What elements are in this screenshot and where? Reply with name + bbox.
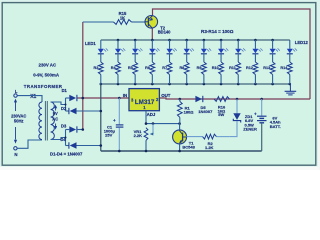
- wire D1-D2 join: [65, 98, 67, 111]
- resistor R15: [114, 20, 132, 25]
- resistor R1: [177, 99, 182, 124]
- svg-text:230V AC: 230V AC: [39, 62, 57, 67]
- LED2: [115, 40, 126, 62]
- wire ADJ node: [146, 123, 180, 125]
- LED8: [218, 40, 229, 62]
- svg-text:180Ω: 180Ω: [184, 109, 195, 114]
- pin 2: [156, 97, 159, 102]
- label ADJ: [147, 112, 156, 117]
- junction wiper: [152, 122, 155, 125]
- battery BATT: [257, 116, 267, 123]
- junction D2 return: [100, 110, 103, 113]
- svg-text:0-9V, 500mA: 0-9V, 500mA: [33, 73, 60, 78]
- potentiometer VR1: [144, 128, 148, 141]
- svg-text:BATT.: BATT.: [270, 124, 281, 129]
- svg-text:ZENER: ZENER: [243, 126, 257, 131]
- svg-text:50Hz: 50Hz: [14, 119, 24, 124]
- wire D3 out: [77, 129, 83, 131]
- LED11: [270, 40, 281, 62]
- LED9: [235, 40, 246, 62]
- terminal N: [14, 147, 18, 157]
- svg-text:LED1: LED1: [85, 41, 96, 46]
- terminal L: [14, 89, 18, 97]
- capacitor C1: [116, 125, 124, 127]
- label D2: [61, 106, 67, 111]
- svg-text:LED12: LED12: [295, 40, 309, 45]
- wire battery+ rail (top and right): [153, 9, 311, 99]
- svg-text:R11: R11: [229, 66, 236, 70]
- inner panel: [2, 3, 316, 166]
- label 9V AC: [52, 111, 58, 121]
- svg-text:D2: D2: [61, 106, 67, 111]
- resistor R2: [203, 134, 217, 139]
- svg-text:R5: R5: [128, 66, 133, 70]
- wire D4 out: [77, 145, 101, 147]
- wire L to primary: [17, 96, 42, 102]
- label R3: [94, 66, 99, 70]
- diode D2: [69, 108, 77, 114]
- wire battery top: [261, 99, 263, 116]
- diode D4: [69, 142, 77, 148]
- label R5: [128, 66, 133, 70]
- svg-text:5W: 5W: [218, 112, 224, 117]
- wire N to primary: [17, 140, 42, 148]
- label 0-9V 500mA: [33, 73, 60, 78]
- label R7: [162, 66, 167, 70]
- wire T1 emitter: [179, 144, 181, 151]
- transformer core: [45, 101, 47, 141]
- svg-text:1.2K: 1.2K: [205, 145, 214, 150]
- svg-text:ADJ: ADJ: [147, 112, 156, 117]
- label T2 BD140: [158, 25, 171, 34]
- LED7: [201, 40, 212, 62]
- junction T1 rail: [178, 150, 181, 153]
- wire bridge positive to LM317 IN: [77, 97, 129, 99]
- transistor T1: [173, 130, 187, 144]
- svg-text:N: N: [14, 152, 17, 157]
- resistor R4: [116, 62, 121, 84]
- label 6V 4.5Ah BATT: [270, 116, 281, 129]
- label D3: [61, 123, 67, 128]
- svg-text:R9: R9: [197, 66, 202, 70]
- wire T2 base pulldown (vertical): [82, 22, 84, 130]
- label LED12: [295, 40, 309, 45]
- svg-text:AC: AC: [52, 116, 58, 121]
- wire to R15: [83, 21, 114, 23]
- LED4: [149, 40, 160, 62]
- svg-text:1K: 1K: [120, 16, 125, 21]
- label R11: [229, 66, 236, 70]
- label TRANSFORMER: [24, 84, 63, 89]
- label R3-R14 = 100 ohm: [201, 29, 234, 34]
- label D5 1N4007: [198, 105, 213, 114]
- junction D4 return: [100, 144, 103, 147]
- transformer secondary coil: [51, 102, 55, 140]
- label LM317: [135, 99, 155, 106]
- svg-text:R7: R7: [162, 66, 167, 70]
- svg-text:IN: IN: [123, 93, 127, 98]
- svg-text:D1-D4 = 1N4007: D1-D4 = 1N4007: [50, 152, 83, 157]
- label battery plus: [254, 112, 257, 117]
- label R8: [179, 66, 184, 70]
- regulator U1 LM317: [129, 89, 159, 111]
- wire battery bottom: [261, 123, 263, 151]
- ground rail: [101, 150, 262, 152]
- label C1 plus: [113, 118, 116, 123]
- arrows 9V AC: [54, 105, 57, 130]
- junction D3 / pulldown: [82, 128, 85, 131]
- label X1: [30, 94, 36, 100]
- arrows 230VAC: [14, 99, 17, 144]
- diode D1: [69, 95, 77, 101]
- svg-text:D1: D1: [62, 88, 68, 93]
- wire VR1 bottom: [145, 140, 147, 151]
- resistor R5: [133, 62, 138, 84]
- svg-text:R8: R8: [179, 66, 184, 70]
- resistor R9: [202, 62, 207, 84]
- svg-text:25V: 25V: [105, 132, 112, 137]
- wire LED ground return: [100, 84, 102, 151]
- label C1 1000u 25V: [104, 125, 116, 138]
- label D4: [60, 137, 66, 142]
- wire to D4: [66, 145, 69, 147]
- svg-text:R13: R13: [263, 66, 270, 70]
- transistor T2: [145, 15, 158, 28]
- junctions anode bus: [117, 39, 274, 42]
- svg-text:1N4007: 1N4007: [198, 109, 213, 114]
- wire to D1: [66, 97, 70, 99]
- resistor R12: [253, 62, 258, 84]
- resistor R11: [236, 62, 241, 84]
- pin 1: [143, 105, 146, 110]
- junctions cathode bus: [100, 83, 292, 86]
- zener ZD1: [233, 113, 240, 122]
- svg-text:+: +: [254, 112, 257, 117]
- resistor R8: [184, 62, 189, 84]
- resistor R10: [219, 62, 224, 84]
- diode D5: [195, 96, 202, 102]
- label R14: [280, 66, 288, 70]
- wire to D3: [66, 129, 70, 131]
- svg-text:BD140: BD140: [158, 29, 171, 34]
- wire secondary bottom tap: [51, 138, 66, 140]
- junction base pulldown / IN line: [82, 97, 85, 100]
- junction OUT/ZD1: [236, 98, 239, 101]
- label R10: [212, 66, 219, 70]
- LED anode bus: [101, 39, 290, 41]
- label VR1 2.2K: [134, 129, 143, 138]
- resistor R7: [167, 62, 172, 84]
- junction OUT/battery: [260, 98, 263, 101]
- LED10: [252, 40, 263, 62]
- wire D2 out: [77, 110, 101, 112]
- junction R1/T1: [178, 122, 181, 125]
- wire ADJ pin: [145, 111, 147, 124]
- label IN: [123, 93, 127, 98]
- label D1: [62, 88, 68, 93]
- svg-text:R10: R10: [212, 66, 219, 70]
- resistor R14: [287, 62, 292, 84]
- label R6: [145, 66, 150, 70]
- wire ZD1 bottom: [230, 121, 237, 137]
- wire secondary top tap: [51, 102, 66, 105]
- outer white strip: [0, 120, 320, 170]
- svg-text:TRANSFORMER: TRANSFORMER: [24, 84, 63, 89]
- svg-text:2.2K: 2.2K: [134, 133, 143, 138]
- label R16 16ohm 5W: [218, 104, 226, 117]
- label 230VAC 50Hz: [11, 113, 26, 123]
- LED5: [167, 40, 178, 62]
- LED12: [287, 40, 298, 62]
- wire C1 top: [118, 98, 120, 124]
- svg-text:BC548: BC548: [182, 145, 195, 150]
- junction VR1 rail: [145, 150, 148, 153]
- LED cathode bus: [101, 83, 291, 85]
- label D1-D4 = 1N4007: [50, 152, 83, 157]
- svg-text:R3: R3: [94, 66, 99, 70]
- junction ADJ: [145, 122, 148, 125]
- svg-text:+: +: [113, 118, 116, 123]
- resistor R6: [150, 62, 155, 84]
- wire T2 collector to LED bus: [151, 28, 153, 40]
- resistor R3: [98, 62, 103, 84]
- pin 3: [131, 97, 134, 102]
- label R1 180 ohm: [184, 105, 195, 114]
- diode D3: [69, 126, 77, 132]
- wire ZD1 to R2: [216, 136, 229, 138]
- LED3: [132, 40, 143, 62]
- wire R15 to T2 base: [132, 21, 146, 23]
- junction OUT/R1: [179, 98, 182, 101]
- junction IN line / C1: [118, 97, 121, 100]
- label ZD1 6.8V 0.5W ZENER: [243, 114, 257, 131]
- wire D3-D4 join: [65, 130, 67, 146]
- junction C1 rail: [118, 150, 121, 153]
- resistor R13: [270, 62, 275, 84]
- label R9: [197, 66, 202, 70]
- wire to D2: [66, 110, 69, 112]
- label R2 1.2K: [205, 141, 214, 150]
- ground: [285, 84, 297, 95]
- wire T1 collector: [179, 124, 181, 130]
- wire C1 bottom: [118, 128, 120, 151]
- wire ZD1 top: [236, 99, 238, 113]
- label T1 BC548: [182, 141, 195, 150]
- transformer primary coil: [39, 102, 42, 140]
- svg-text:R6: R6: [145, 66, 150, 70]
- label R12: [246, 66, 253, 70]
- label LED1: [85, 41, 96, 46]
- LED6: [184, 40, 195, 62]
- svg-text:R14: R14: [280, 66, 288, 70]
- svg-text:R12: R12: [246, 66, 253, 70]
- wire R2 to T1 base: [186, 136, 202, 138]
- svg-text:D3: D3: [61, 123, 67, 128]
- label R4: [111, 66, 117, 70]
- label 230V AC: [39, 62, 57, 67]
- svg-text:R3-R14 = 100Ω: R3-R14 = 100Ω: [201, 29, 234, 34]
- svg-text:L: L: [15, 89, 18, 94]
- wire VR1 wiper: [150, 124, 154, 136]
- label R13: [263, 66, 270, 70]
- label OUT: [161, 93, 171, 98]
- resistor R16: [214, 97, 230, 102]
- label R15 1K: [119, 11, 127, 21]
- svg-text:OUT: OUT: [161, 93, 171, 98]
- LED1: [98, 40, 109, 62]
- svg-text:D4: D4: [60, 137, 66, 142]
- wire LM317 OUT line: [159, 98, 310, 99]
